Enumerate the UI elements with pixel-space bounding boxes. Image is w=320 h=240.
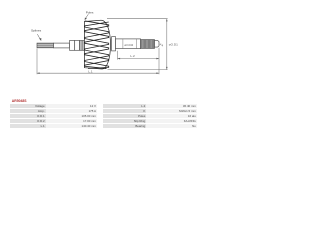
svg-text:Poles: Poles [86,10,94,14]
svg-text:4: 4 [162,44,164,48]
svg-text:Splines: Splines [31,28,42,32]
svg-text:L.1: L.1 [88,70,93,74]
svg-text:⌀O.D1: ⌀O.D1 [169,42,178,46]
svg-text:⌀O.D2: ⌀O.D2 [124,43,133,47]
svg-text:L.2: L.2 [130,54,135,58]
